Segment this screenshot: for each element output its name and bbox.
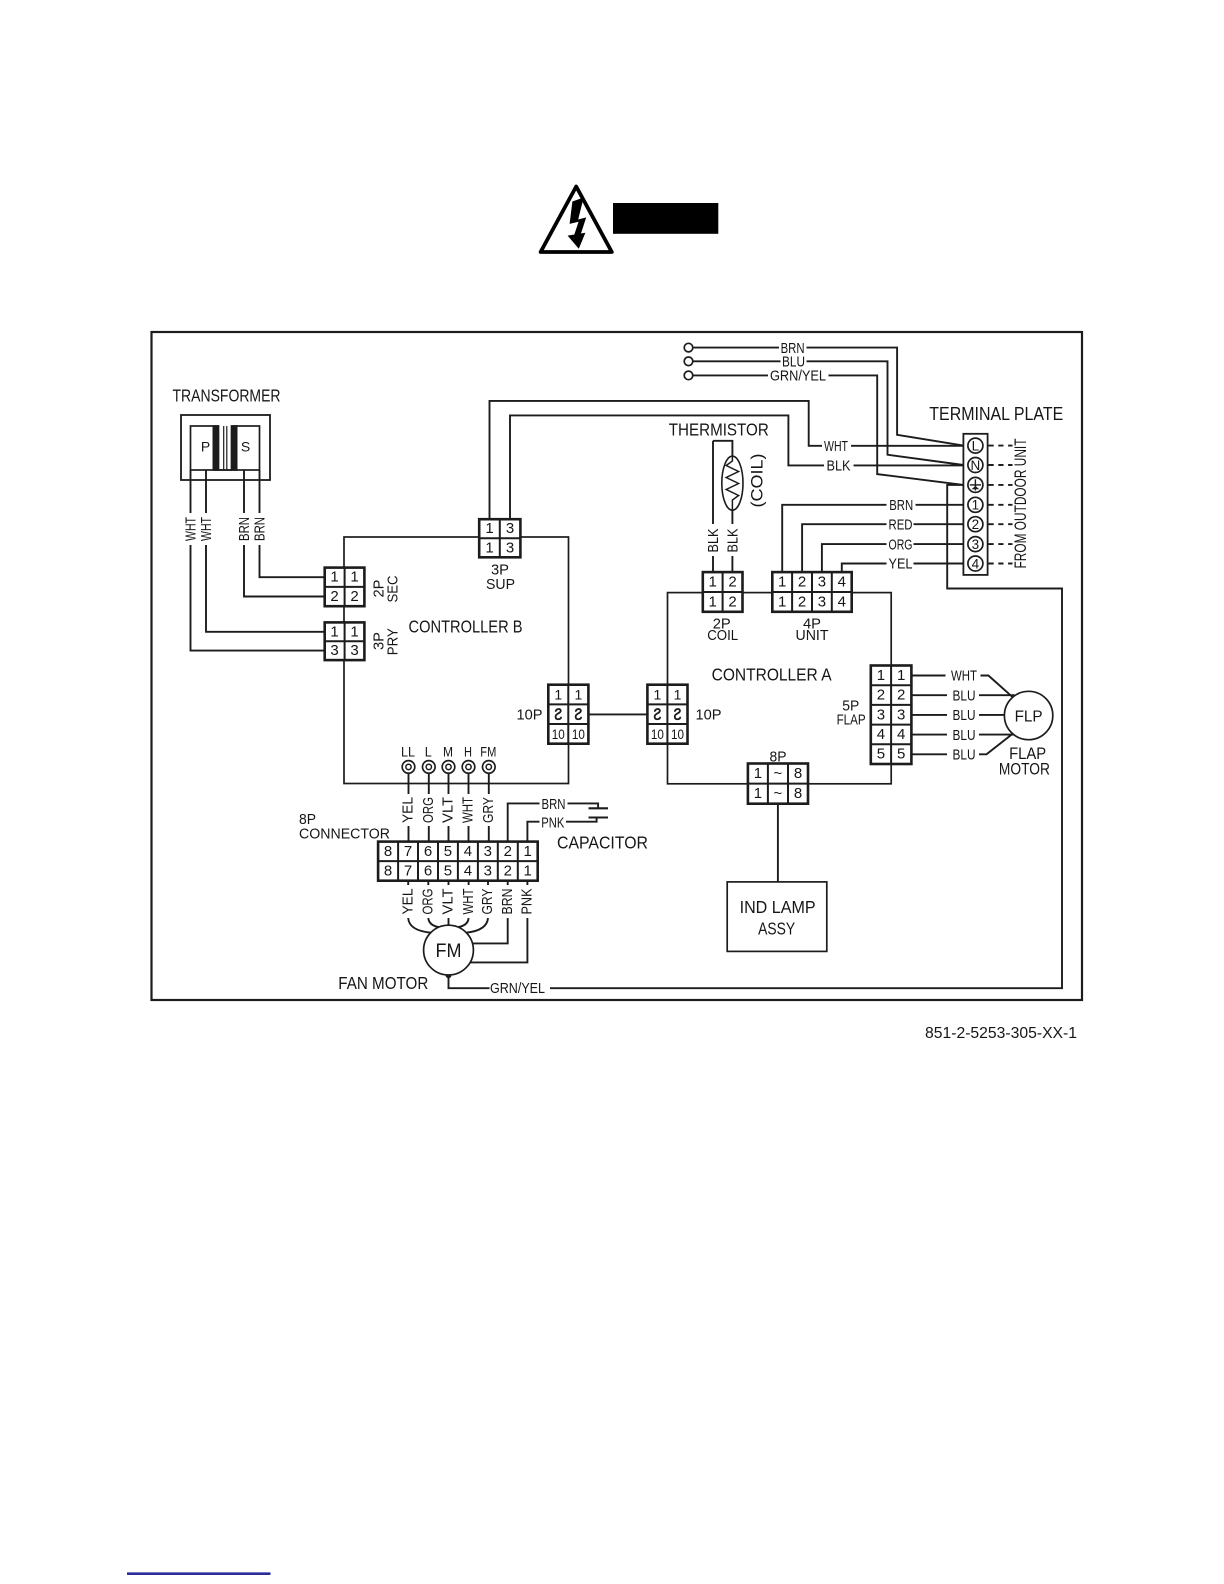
svg-text:M: M bbox=[443, 743, 453, 759]
label GRY bbox=[480, 797, 497, 823]
svg-text:3: 3 bbox=[818, 574, 826, 591]
pigtail terminal circle GRN/YEL bbox=[684, 371, 693, 380]
svg-text:CONTROLLER A: CONTROLLER A bbox=[712, 665, 832, 685]
svg-text:~: ~ bbox=[774, 765, 783, 782]
capacitor plates bbox=[589, 808, 609, 817]
svg-text:5: 5 bbox=[877, 746, 885, 763]
svg-text:ASSY: ASSY bbox=[758, 918, 795, 938]
svg-text:ORG: ORG bbox=[420, 797, 437, 823]
connector 3P PRY bbox=[325, 622, 365, 660]
wire 8P to IND LAMP ASSY bbox=[777, 804, 779, 882]
svg-text:BLU: BLU bbox=[953, 707, 976, 724]
fan motor FM circle bbox=[424, 925, 474, 975]
lightning bolt bbox=[568, 198, 587, 249]
svg-text:BRN: BRN bbox=[236, 517, 253, 541]
label BLK bbox=[827, 458, 851, 475]
svg-text:8: 8 bbox=[384, 862, 392, 879]
label ORG bbox=[889, 536, 913, 553]
wire BLU 5P pin5 to flap motor bbox=[911, 734, 1013, 755]
fan motor label bbox=[338, 973, 428, 993]
svg-text:BRN: BRN bbox=[252, 517, 269, 541]
label BLK bbox=[725, 529, 742, 553]
dashed link terminal 2 to outdoor unit bbox=[989, 523, 1013, 525]
svg-text:3: 3 bbox=[897, 706, 905, 723]
svg-text:851-2-5253-305-XX-1: 851-2-5253-305-XX-1 bbox=[925, 1025, 1077, 1042]
label WHT bbox=[824, 438, 848, 455]
svg-text:TERMINAL PLATE: TERMINAL PLATE bbox=[929, 404, 1063, 424]
terminal L on controller B bbox=[423, 761, 436, 774]
svg-text:WHT: WHT bbox=[198, 517, 215, 541]
terminal H on controller B bbox=[462, 761, 475, 774]
label WHT bbox=[460, 797, 477, 823]
label PNK bbox=[541, 814, 564, 831]
svg-text:H: H bbox=[464, 743, 472, 759]
svg-text:BLK: BLK bbox=[725, 529, 742, 553]
wire PNK 8P to fan motor bbox=[470, 881, 527, 963]
label VLT bbox=[440, 889, 457, 915]
svg-text:1: 1 bbox=[575, 687, 583, 703]
svg-text:4: 4 bbox=[972, 556, 980, 571]
label PNK bbox=[519, 889, 536, 915]
transformer lead tab bbox=[219, 469, 232, 471]
svg-text:FAN MOTOR: FAN MOTOR bbox=[338, 973, 428, 993]
thermistor lead left BLK bbox=[713, 441, 732, 572]
wire WHT to 8P connector bbox=[468, 773, 470, 841]
blue footer line bbox=[127, 1572, 271, 1575]
diagram border frame bbox=[152, 332, 1083, 1000]
label WHT bbox=[198, 517, 215, 541]
connector 3P SUP bbox=[479, 519, 520, 557]
svg-text:1: 1 bbox=[654, 687, 662, 703]
terminal plate label bbox=[929, 404, 1063, 424]
svg-text:GRN/YEL: GRN/YEL bbox=[490, 980, 545, 997]
label GRN/YEL bbox=[488, 979, 546, 997]
wire BLU 5P pin4 to flap motor bbox=[911, 734, 1014, 736]
svg-text:4: 4 bbox=[838, 574, 846, 591]
label 3P SUP bbox=[486, 562, 515, 594]
svg-text:1: 1 bbox=[350, 623, 358, 640]
svg-text:YEL: YEL bbox=[399, 889, 416, 915]
label FROM OUTDOOR UNIT bbox=[1011, 439, 1030, 569]
svg-text:5: 5 bbox=[444, 843, 452, 860]
label 10P bbox=[517, 707, 543, 724]
svg-text:2: 2 bbox=[877, 687, 885, 704]
svg-text:2: 2 bbox=[798, 593, 806, 610]
svg-text:7: 7 bbox=[404, 843, 412, 860]
svg-text:2: 2 bbox=[897, 687, 905, 704]
svg-text:10: 10 bbox=[552, 726, 565, 742]
wire GRN/YEL earth run bbox=[550, 485, 1062, 988]
terminal N bbox=[968, 458, 983, 473]
svg-text:1: 1 bbox=[877, 667, 885, 684]
svg-text:RED: RED bbox=[889, 516, 913, 533]
svg-text:TRANSFORMER: TRANSFORMER bbox=[173, 386, 281, 406]
label LL bbox=[401, 743, 415, 759]
svg-text:8: 8 bbox=[794, 785, 802, 802]
label BRN bbox=[499, 889, 516, 915]
label 4P UNIT bbox=[796, 616, 829, 645]
svg-text:FM: FM bbox=[436, 941, 462, 962]
svg-text:10: 10 bbox=[671, 726, 684, 742]
label GRY bbox=[479, 889, 496, 915]
svg-text:10: 10 bbox=[572, 726, 585, 742]
svg-text:4: 4 bbox=[877, 726, 885, 743]
svg-text:3: 3 bbox=[506, 520, 514, 537]
terminal M on controller B bbox=[442, 761, 455, 774]
svg-text:WHT: WHT bbox=[824, 438, 848, 455]
wire RED continues bbox=[914, 523, 964, 525]
terminal FM on controller B bbox=[483, 761, 496, 774]
label YEL bbox=[399, 889, 416, 915]
svg-text:PNK: PNK bbox=[541, 814, 564, 831]
wire ORG to 8P connector bbox=[428, 773, 430, 841]
svg-text:1: 1 bbox=[524, 843, 532, 860]
connector 10P left bbox=[548, 685, 588, 744]
label BLU bbox=[953, 707, 976, 724]
label GRN/YEL bbox=[770, 368, 826, 385]
wire BRN 8P to capacitor bbox=[508, 803, 598, 841]
wire VLT 8P to fan motor bbox=[448, 881, 450, 926]
warning triangle (high voltage) bbox=[541, 187, 612, 253]
terminal earth bbox=[968, 477, 983, 492]
wire BLU 5P pin2 to flap motor bbox=[911, 694, 1014, 696]
wire YEL 8P to fan motor bbox=[408, 881, 431, 933]
label 2P SEC bbox=[371, 575, 402, 602]
svg-text:8P: 8P bbox=[770, 748, 787, 765]
svg-text:2: 2 bbox=[798, 574, 806, 591]
terminal LL on controller B bbox=[402, 761, 415, 774]
svg-text:UNIT: UNIT bbox=[796, 627, 829, 644]
svg-text:BLU: BLU bbox=[953, 727, 976, 744]
svg-text:1: 1 bbox=[709, 593, 717, 610]
svg-text:4: 4 bbox=[897, 726, 905, 743]
wire GRN/YEL pigtail to earth terminal bbox=[693, 375, 964, 485]
label BRN bbox=[781, 340, 805, 357]
label ORG bbox=[420, 889, 437, 915]
svg-text:GRY: GRY bbox=[479, 889, 496, 915]
svg-text:1: 1 bbox=[778, 574, 786, 591]
terminal 2 bbox=[968, 517, 983, 532]
label H bbox=[464, 743, 472, 759]
thermistor body (oval with element) bbox=[722, 456, 743, 510]
svg-text:P: P bbox=[201, 439, 210, 455]
thermistor label bbox=[669, 420, 769, 440]
controller A box bbox=[668, 593, 892, 784]
IND LAMP ASSY box bbox=[727, 882, 827, 952]
svg-text:PNK: PNK bbox=[519, 889, 536, 915]
svg-text:CONTROLLER B: CONTROLLER B bbox=[409, 617, 523, 637]
svg-text:8: 8 bbox=[794, 765, 802, 782]
flap motor label bbox=[999, 744, 1050, 778]
dashed link terminal 3 to outdoor unit bbox=[989, 543, 1013, 545]
wire ORG 4P pin3 to terminal 3 bbox=[822, 544, 887, 572]
svg-text:2: 2 bbox=[728, 593, 736, 610]
thermistor lead right BLK bbox=[731, 510, 733, 572]
svg-text:YEL: YEL bbox=[889, 556, 913, 573]
transformer T1 outer box bbox=[181, 415, 270, 480]
svg-text:CAPACITOR: CAPACITOR bbox=[557, 832, 648, 852]
label M bbox=[443, 743, 453, 759]
dashed link terminal L to outdoor unit bbox=[989, 445, 1013, 447]
svg-text:10P: 10P bbox=[696, 707, 722, 724]
svg-text:S: S bbox=[241, 439, 250, 455]
svg-text:10P: 10P bbox=[517, 707, 543, 724]
label RED bbox=[889, 516, 913, 533]
svg-text:BLK: BLK bbox=[705, 529, 722, 553]
svg-text:3: 3 bbox=[484, 843, 492, 860]
dashed link terminal 4 to outdoor unit bbox=[989, 563, 1013, 565]
svg-text:1: 1 bbox=[485, 520, 493, 537]
svg-text:FLP: FLP bbox=[1015, 709, 1043, 726]
svg-text:6: 6 bbox=[424, 862, 432, 879]
wire WHT 5P pin1 to flap motor bbox=[911, 676, 1013, 698]
svg-text:1: 1 bbox=[778, 593, 786, 610]
svg-text:L: L bbox=[972, 439, 980, 454]
capacitor label bbox=[557, 832, 648, 852]
flap motor FLP circle bbox=[1004, 691, 1052, 739]
svg-text:1: 1 bbox=[754, 785, 762, 802]
label (COIL) bbox=[749, 454, 767, 508]
svg-text:WHT: WHT bbox=[460, 889, 477, 915]
transformer primary winding P bbox=[191, 425, 219, 471]
connector 2P SEC bbox=[325, 568, 365, 607]
pigtail terminal circle BRN bbox=[684, 343, 693, 352]
svg-text:3: 3 bbox=[877, 706, 885, 723]
terminal 3 bbox=[968, 537, 983, 552]
label 5P FLAP bbox=[837, 697, 866, 728]
svg-text:FLAP: FLAP bbox=[837, 711, 866, 728]
svg-text:2: 2 bbox=[972, 517, 980, 532]
terminal 4 bbox=[968, 556, 983, 571]
svg-text:LL: LL bbox=[401, 743, 415, 759]
svg-text:7: 7 bbox=[404, 862, 412, 879]
svg-text:10: 10 bbox=[651, 726, 664, 742]
svg-text:~: ~ bbox=[774, 785, 783, 802]
dashed link terminal earth to outdoor unit bbox=[989, 484, 1013, 486]
svg-text:1: 1 bbox=[554, 687, 562, 703]
wire WHT 3P SUP pin1 to terminal L bbox=[490, 401, 823, 519]
connector 10P right bbox=[647, 685, 687, 744]
label 8P CONNECTOR bbox=[299, 811, 390, 842]
svg-text:VLT: VLT bbox=[440, 889, 457, 915]
label BRN bbox=[252, 517, 269, 541]
svg-text:2: 2 bbox=[350, 588, 358, 605]
junction dot fan motor earth bbox=[446, 972, 452, 978]
wire BRN pigtail to terminal L bbox=[693, 348, 964, 446]
label BLU bbox=[782, 354, 805, 371]
controller B label bbox=[409, 617, 523, 637]
svg-text:COIL: COIL bbox=[707, 627, 738, 644]
label BRN bbox=[236, 517, 253, 541]
label ORG bbox=[420, 797, 437, 823]
wire YEL 4P pin4 to terminal 4 bbox=[842, 564, 887, 573]
part number bbox=[925, 1025, 1077, 1042]
wire YEL to 8P connector bbox=[408, 773, 410, 841]
transformer core bbox=[224, 426, 227, 470]
controller B box bbox=[344, 537, 569, 784]
svg-text:2: 2 bbox=[728, 574, 736, 591]
svg-text:8: 8 bbox=[384, 843, 392, 860]
svg-text:1: 1 bbox=[897, 667, 905, 684]
connector 8P lamp bbox=[748, 764, 808, 804]
wire BRN transformer S left to 2P SEC pin2 bbox=[244, 470, 325, 597]
svg-text:6: 6 bbox=[424, 843, 432, 860]
svg-text:THERMISTOR: THERMISTOR bbox=[669, 420, 769, 440]
label 3P PRY bbox=[371, 628, 402, 655]
svg-text:GRN/YEL: GRN/YEL bbox=[770, 368, 826, 385]
wire BRN 4P pin1 to terminal 1 bbox=[782, 505, 886, 572]
svg-text:VLT: VLT bbox=[440, 797, 457, 823]
svg-text:BRN: BRN bbox=[889, 497, 913, 514]
label L bbox=[425, 743, 432, 759]
svg-text:SUP: SUP bbox=[486, 576, 515, 593]
controller A label bbox=[712, 665, 832, 685]
label VLT bbox=[440, 797, 457, 823]
svg-text:CONNECTOR: CONNECTOR bbox=[299, 825, 390, 842]
wire BRN 8P to fan motor bbox=[473, 881, 508, 944]
svg-text:BLU: BLU bbox=[953, 687, 976, 704]
transformer label bbox=[173, 386, 281, 406]
wire WHT transformer P right to 3P PRY pin1 bbox=[206, 470, 325, 632]
connector 2P COIL bbox=[703, 572, 743, 612]
svg-text:1: 1 bbox=[330, 569, 338, 586]
wire VLT to 8P connector bbox=[448, 773, 450, 841]
svg-text:3: 3 bbox=[350, 642, 358, 659]
svg-text:GRY: GRY bbox=[480, 797, 497, 823]
label BLU bbox=[953, 747, 976, 764]
svg-text:FM: FM bbox=[480, 743, 496, 759]
svg-text:3: 3 bbox=[818, 593, 826, 610]
label BRN bbox=[542, 796, 566, 813]
svg-text:1: 1 bbox=[350, 569, 358, 586]
svg-text:WHT: WHT bbox=[460, 797, 477, 823]
wire BRN transformer S right to 2P SEC pin1 bbox=[260, 470, 325, 577]
wire GRY 8P to fan motor bbox=[466, 881, 488, 933]
wire GRY to 8P connector bbox=[488, 773, 490, 841]
svg-text:2: 2 bbox=[504, 843, 512, 860]
label BLK bbox=[705, 529, 722, 553]
svg-text:BRN: BRN bbox=[542, 796, 566, 813]
svg-text:WHT: WHT bbox=[183, 517, 200, 541]
label 8P bbox=[770, 748, 787, 765]
label 10P bbox=[696, 707, 722, 724]
svg-text:1: 1 bbox=[674, 687, 682, 703]
dashed link terminal N to outdoor unit bbox=[989, 464, 1013, 466]
wire YEL continues bbox=[914, 563, 964, 565]
wire ORG continues bbox=[914, 543, 964, 545]
wire BLU 5P pin3 to flap motor bbox=[911, 714, 1004, 716]
svg-text:2: 2 bbox=[330, 588, 338, 605]
label WHT bbox=[183, 517, 200, 541]
connector 4P UNIT bbox=[772, 572, 851, 612]
pigtail terminal circle BLU bbox=[684, 357, 693, 366]
dashed link terminal 1 to outdoor unit bbox=[989, 504, 1013, 506]
label BLU bbox=[953, 687, 976, 704]
svg-text:BLU: BLU bbox=[953, 747, 976, 764]
connector 5P FLAP bbox=[871, 666, 912, 765]
svg-text:3: 3 bbox=[330, 642, 338, 659]
svg-text:BLK: BLK bbox=[827, 458, 851, 475]
svg-text:ORG: ORG bbox=[420, 889, 437, 915]
label WHT bbox=[460, 889, 477, 915]
svg-text:4: 4 bbox=[464, 862, 472, 879]
svg-text:1: 1 bbox=[709, 574, 717, 591]
wire WHT continues bbox=[851, 445, 963, 447]
terminal plate block bbox=[963, 434, 987, 575]
terminal L bbox=[968, 438, 983, 453]
svg-text:BRN: BRN bbox=[499, 889, 516, 915]
label YEL bbox=[889, 556, 913, 573]
svg-text:MOTOR: MOTOR bbox=[999, 759, 1050, 778]
wire RED 4P pin2 to terminal 2 bbox=[802, 524, 886, 572]
svg-text:5: 5 bbox=[897, 746, 905, 763]
terminal 1 bbox=[968, 497, 983, 512]
label BRN bbox=[889, 497, 913, 514]
svg-text:3: 3 bbox=[972, 537, 980, 552]
svg-text:SEC: SEC bbox=[385, 575, 402, 602]
svg-text:L: L bbox=[425, 743, 432, 759]
svg-text:5: 5 bbox=[444, 862, 452, 879]
svg-text:3: 3 bbox=[506, 539, 514, 556]
svg-text:4: 4 bbox=[838, 593, 846, 610]
transformer secondary winding S bbox=[232, 425, 260, 471]
connector 8P bbox=[378, 842, 538, 881]
wire controller B to 10P bbox=[588, 713, 647, 715]
svg-text:(COIL): (COIL) bbox=[749, 454, 767, 508]
svg-text:1: 1 bbox=[524, 862, 532, 879]
svg-text:3: 3 bbox=[484, 862, 492, 879]
wire WHT 8P to fan motor bbox=[458, 881, 469, 928]
wire GRN/YEL to fan motor bbox=[449, 977, 490, 988]
svg-text:4: 4 bbox=[464, 843, 472, 860]
svg-text:ORG: ORG bbox=[889, 536, 913, 553]
svg-text:1: 1 bbox=[330, 623, 338, 640]
wire WHT transformer P left to 3P PRY pin3 bbox=[191, 470, 325, 651]
redaction black bar bbox=[613, 203, 718, 234]
svg-text:1: 1 bbox=[972, 498, 980, 513]
svg-text:1: 1 bbox=[754, 765, 762, 782]
svg-text:1: 1 bbox=[485, 539, 493, 556]
label WHT bbox=[951, 668, 977, 685]
svg-text:YEL: YEL bbox=[400, 797, 417, 823]
svg-text:FROM OUTDOOR UNIT: FROM OUTDOOR UNIT bbox=[1011, 439, 1030, 569]
label BLU bbox=[953, 727, 976, 744]
label FM bbox=[480, 743, 496, 759]
svg-text:PRY: PRY bbox=[385, 628, 402, 655]
wire BLK continues bbox=[854, 464, 964, 466]
svg-text:2: 2 bbox=[504, 862, 512, 879]
svg-text:IND LAMP: IND LAMP bbox=[740, 897, 816, 917]
wire ORG 8P to fan motor bbox=[428, 881, 439, 928]
wire BLU pigtail to terminal N bbox=[693, 361, 964, 465]
label 2P COIL bbox=[707, 616, 738, 645]
wire PNK 8P to capacitor bbox=[527, 818, 596, 842]
svg-text:WHT: WHT bbox=[951, 668, 977, 685]
wire BLK 3P SUP pin3 to terminal N bbox=[510, 415, 824, 519]
label YEL bbox=[400, 797, 417, 823]
svg-text:N: N bbox=[971, 458, 981, 473]
wire BRN continues bbox=[916, 504, 964, 506]
